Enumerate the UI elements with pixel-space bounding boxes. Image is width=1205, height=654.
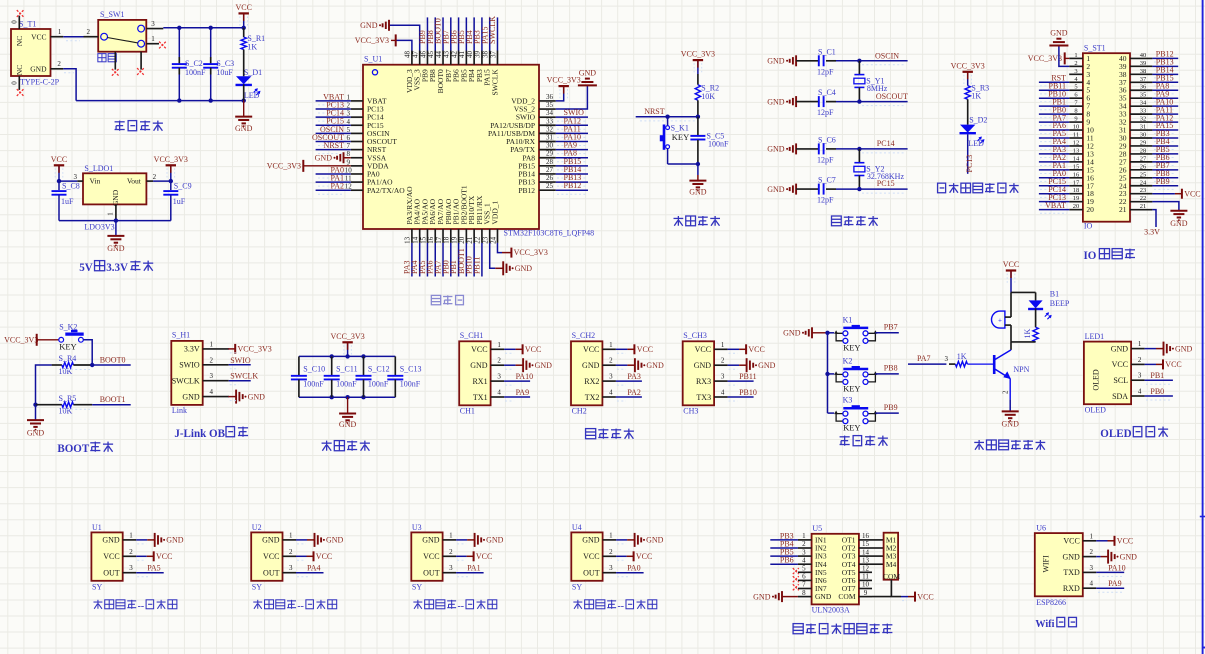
svg-text:GND: GND — [111, 189, 120, 206]
svg-text:SCL: SCL — [1113, 376, 1128, 385]
connector H1 J-Link — [171, 331, 202, 416]
node VCC top rail — [163, 26, 246, 30]
svg-text:GND: GND — [646, 361, 664, 370]
svg-text:GND: GND — [515, 264, 533, 273]
wire OSCOUT — [857, 92, 908, 106]
svg-text:1uF: 1uF — [61, 197, 74, 206]
svg-text:GND: GND — [248, 392, 266, 401]
svg-text:GND: GND — [1175, 344, 1193, 353]
svg-text:VCC_3V3: VCC_3V3 — [1028, 54, 1062, 63]
crystal Y2 32.768KHz — [854, 149, 905, 189]
svg-text:100nF: 100nF — [400, 380, 421, 389]
U1 pin 27 PB14 — [518, 165, 588, 179]
svg-text:GND: GND — [535, 361, 553, 370]
svg-text:GND: GND — [1111, 344, 1129, 353]
svg-text:10: 10 — [862, 581, 870, 589]
title 滤波电路 — [322, 441, 370, 451]
svg-text:S_U1: S_U1 — [364, 55, 382, 64]
U1 pin 24 VDD_1 — [489, 201, 502, 253]
svg-text:1: 1 — [1090, 532, 1094, 540]
svg-text:2: 2 — [209, 356, 213, 364]
svg-text:S_C12: S_C12 — [368, 365, 390, 374]
svg-text:Vin: Vin — [90, 176, 101, 185]
svg-text:GND: GND — [582, 536, 600, 545]
svg-text:B1: B1 — [1050, 289, 1059, 298]
ST1 pin 4 — [1039, 73, 1091, 86]
svg-text:1: 1 — [209, 340, 213, 348]
U1 pin 38 PA15 — [480, 17, 491, 85]
svg-text:2: 2 — [609, 357, 613, 365]
svg-text:VCC: VCC — [423, 552, 439, 561]
svg-text:LED1: LED1 — [1085, 332, 1105, 341]
svg-text:3: 3 — [209, 372, 213, 380]
svg-text:1: 1 — [721, 341, 725, 349]
resistor 1K base — [908, 352, 994, 367]
capacitor C7 12pF — [767, 176, 859, 205]
svg-text:ULN2003A: ULN2003A — [812, 606, 850, 615]
svg-text:S_CH1: S_CH1 — [460, 331, 484, 340]
svg-text:35: 35 — [1140, 92, 1147, 99]
U1 pin 19 PB1/AO — [449, 198, 461, 276]
svg-text:27: 27 — [1140, 155, 1147, 162]
svg-text:39: 39 — [1140, 60, 1147, 67]
U1 pin 8 VSSA — [315, 150, 387, 163]
svg-text:VCC_3V3: VCC_3V3 — [514, 248, 548, 257]
svg-text:SWCLK: SWCLK — [488, 16, 497, 44]
svg-text:28: 28 — [1140, 147, 1147, 154]
U5 pin 3 IN3 — [770, 548, 827, 561]
U3 pin 1 GND — [422, 531, 503, 547]
U1 pin 10 PA0 — [316, 165, 380, 178]
svg-text:21: 21 — [1140, 203, 1147, 210]
capacitor C4 12pF — [767, 88, 859, 117]
svg-text:3.3V: 3.3V — [1144, 228, 1160, 237]
svg-text:15: 15 — [862, 540, 870, 548]
svg-text:SWIO: SWIO — [230, 356, 251, 365]
U1 pin 32 PA11/USB/DM — [488, 124, 588, 138]
svg-text:GND: GND — [582, 361, 600, 370]
svg-text:S_C4: S_C4 — [818, 88, 836, 97]
svg-text:1K: 1K — [971, 92, 981, 101]
connector ST1 IO header body — [1083, 43, 1130, 230]
svg-text:PA10: PA10 — [516, 372, 534, 381]
svg-text:1: 1 — [802, 532, 806, 540]
wire BOOT0 — [62, 356, 131, 370]
svg-text:VCC: VCC — [583, 552, 599, 561]
capacitor C6 12pF — [767, 135, 859, 164]
svg-text:PB0: PB0 — [1150, 387, 1164, 396]
svg-text:GND: GND — [262, 536, 280, 545]
key K1 button PB7 — [828, 315, 899, 352]
U5 pin 12 OT5 — [842, 565, 872, 577]
ST1 pin 17 — [1039, 177, 1094, 190]
U3 pin 3 OUT — [423, 564, 483, 578]
svg-text:16: 16 — [1073, 171, 1080, 178]
svg-text:GND: GND — [102, 536, 120, 545]
svg-text:3: 3 — [802, 548, 806, 556]
svg-text:PA9: PA9 — [1108, 579, 1122, 588]
svg-text:100nF: 100nF — [336, 380, 357, 389]
svg-text:S_H1: S_H1 — [172, 331, 190, 340]
svg-text:VCC_3V3: VCC_3V3 — [154, 155, 188, 164]
svg-text:U2: U2 — [252, 523, 262, 532]
U1 pin 16 PA6/AO — [426, 198, 438, 276]
svg-text:33: 33 — [546, 117, 554, 125]
S_CH1 pin 2 GND — [470, 357, 552, 373]
ST1 pin 13 — [1039, 145, 1094, 158]
svg-text:S_C6: S_C6 — [818, 135, 836, 144]
svg-text:S_CH2: S_CH2 — [572, 331, 596, 340]
ground GND at U1 VSS_1 — [495, 261, 532, 275]
svg-text:2: 2 — [449, 548, 453, 556]
svg-text:GND: GND — [753, 592, 771, 601]
svg-text:2: 2 — [289, 548, 293, 556]
svg-text:14: 14 — [1073, 155, 1080, 162]
svg-text:3: 3 — [449, 564, 453, 572]
svg-text:RXD: RXD — [1063, 584, 1080, 593]
svg-text:U1: U1 — [92, 523, 102, 532]
wire PC14 — [857, 139, 907, 153]
module U4 sound sensor — [571, 523, 602, 592]
svg-text:2: 2 — [1090, 548, 1094, 556]
buzzer B1 BEEP — [992, 289, 1070, 342]
svg-text:SWCLK: SWCLK — [230, 372, 258, 381]
ST1 pin 1 — [1028, 52, 1091, 65]
svg-text:24: 24 — [489, 236, 497, 244]
svg-text:4: 4 — [609, 389, 613, 397]
svg-text:38: 38 — [1140, 68, 1147, 75]
svg-text:--: -- — [297, 601, 304, 612]
title J-Link OB接口 — [174, 427, 248, 440]
S_CH1 pin 1 VCC — [471, 341, 541, 355]
ST1 pin 2 — [1059, 46, 1091, 71]
ST1 pin 10 — [1039, 121, 1094, 134]
U1 pin 46 PB9 — [418, 17, 429, 82]
svg-text:32: 32 — [546, 125, 554, 133]
wire BOOT1 — [62, 395, 131, 409]
U1 pin 15 PA5/AO — [418, 198, 430, 276]
svg-text:GND: GND — [767, 57, 785, 66]
svg-text:--: -- — [458, 601, 465, 612]
key K2 button PB8 — [828, 356, 899, 393]
svg-text:PA7: PA7 — [917, 354, 931, 363]
title 声音检测--模拟量 U4 — [573, 600, 656, 612]
U1 pin 21 PB10/TX — [465, 195, 477, 276]
svg-text:VCC: VCC — [525, 345, 541, 354]
svg-text:VCC: VCC — [235, 3, 251, 12]
svg-text:K2: K2 — [843, 356, 853, 365]
svg-text:2: 2 — [153, 173, 157, 181]
svg-text:OUT: OUT — [423, 569, 440, 578]
svg-text:1K: 1K — [1023, 329, 1032, 339]
wire left bus BOOT — [33, 365, 51, 407]
U1 pin 1 VBAT — [316, 92, 387, 105]
svg-text:1: 1 — [449, 531, 453, 539]
svg-text:PA9: PA9 — [516, 388, 530, 397]
resistor 1K alarm vertical — [1023, 327, 1038, 342]
svg-text:3: 3 — [609, 564, 613, 572]
ST1 pin 34 — [1119, 97, 1178, 110]
svg-text:BOOT0: BOOT0 — [100, 356, 126, 365]
svg-text:GND: GND — [422, 536, 440, 545]
ST1 pin 37 — [1119, 73, 1178, 86]
U1 pin 4 PC15 — [316, 117, 384, 130]
svg-text:GND: GND — [1120, 552, 1138, 561]
svg-text:VBAT: VBAT — [1045, 201, 1066, 210]
ST1 pin 30 — [1119, 129, 1178, 142]
svg-text:PA0: PA0 — [627, 564, 641, 573]
SW1 bottom pins no-connect — [112, 52, 144, 76]
svg-text:17: 17 — [1073, 179, 1080, 186]
U1 pin 17 PA7/AO — [434, 198, 446, 276]
wire NRST — [636, 107, 700, 121]
U5 pin 8 GND — [753, 589, 832, 602]
svg-text:BEEP: BEEP — [1050, 299, 1070, 308]
svg-text:34: 34 — [546, 109, 554, 117]
svg-text:GND: GND — [767, 97, 785, 106]
svg-text:2: 2 — [802, 540, 806, 548]
svg-text:GND: GND — [767, 145, 785, 154]
svg-text:KEY: KEY — [59, 342, 76, 352]
LED1 pin 4 SDA — [1112, 387, 1173, 401]
svg-text:10K: 10K — [701, 92, 715, 101]
title Wifi模块 — [1035, 617, 1076, 630]
wire VCC node to Vin — [57, 179, 78, 183]
wire emitter down — [1002, 379, 1011, 400]
svg-text:VCC: VCC — [637, 345, 653, 354]
LDO1 pin 2 — [146, 173, 156, 181]
U1 pin 9 VDDA — [267, 158, 389, 172]
power VCC alarm — [1003, 260, 1019, 292]
capacitor C3 10uF — [203, 28, 234, 101]
svg-text:PC13: PC13 — [965, 155, 974, 173]
svg-text:3: 3 — [609, 373, 613, 381]
svg-text:6: 6 — [802, 573, 806, 581]
svg-text:VCC_3V3: VCC_3V3 — [238, 345, 272, 354]
svg-text:2: 2 — [497, 357, 501, 365]
svg-text:PA2: PA2 — [627, 388, 641, 397]
U1 pin 12 PA2/TX/AO — [316, 182, 406, 195]
U1 pin 44 BOOT0 — [434, 17, 445, 93]
SW1 pin 1 no-connect — [146, 35, 166, 48]
U1 pin 31 PA10/RX — [506, 133, 588, 147]
svg-text:VCC: VCC — [1184, 190, 1200, 199]
svg-text:SY: SY — [572, 583, 582, 592]
power VCC_3V3 reset — [681, 50, 715, 74]
ST1 pin 20 — [1039, 201, 1094, 214]
svg-text:1: 1 — [609, 531, 613, 539]
svg-text:4: 4 — [497, 389, 501, 397]
U4 pin 2 VCC — [583, 548, 652, 562]
S_CH2 pin 3 RX2 — [584, 372, 642, 386]
svg-text:PB8: PB8 — [884, 364, 898, 373]
key K3 button PB9 — [828, 396, 899, 433]
ST1 pin 38 — [1119, 66, 1178, 79]
ground GND at U1 VSS_2 — [578, 68, 597, 85]
U6 pin 3 TXD — [1063, 563, 1125, 577]
svg-text:NPN: NPN — [1013, 365, 1029, 374]
svg-text:GND: GND — [235, 124, 253, 133]
svg-text:VCC: VCC — [1112, 360, 1128, 369]
LED in alarm — [1028, 292, 1052, 327]
U1 pin 3 PC14 — [316, 109, 384, 122]
svg-text:OLED: OLED — [1085, 406, 1107, 415]
U4 pin 3 OUT — [583, 564, 643, 578]
U6 pin 2 GND — [1062, 548, 1137, 564]
svg-text:NRST: NRST — [324, 141, 345, 150]
T1 pin 1 VCC — [51, 28, 64, 37]
svg-text:3.3V: 3.3V — [106, 262, 128, 274]
sheet border right — [1202, 0, 1204, 654]
svg-text:BOOT: BOOT — [57, 443, 90, 455]
svg-text:GND: GND — [315, 154, 333, 163]
svg-text:SY: SY — [92, 583, 102, 592]
S_CH3 pin 2 GND — [694, 357, 776, 373]
svg-text:S_CH3: S_CH3 — [683, 331, 707, 340]
U5 pin 15 OT2 — [842, 540, 884, 552]
svg-text:VDD_1: VDD_1 — [490, 201, 499, 225]
U1 pin 11 PA1/AO — [316, 174, 394, 187]
svg-text:1: 1 — [151, 35, 155, 43]
svg-text:VCC: VCC — [263, 552, 279, 561]
svg-text:PA5: PA5 — [147, 564, 161, 573]
LED D1 — [236, 50, 263, 101]
svg-text:TX1: TX1 — [473, 393, 488, 402]
svg-text:9: 9 — [1074, 116, 1077, 123]
svg-text:TX2: TX2 — [585, 393, 600, 402]
svg-text:PA10: PA10 — [1108, 563, 1126, 572]
svg-text:S_R4: S_R4 — [59, 354, 77, 363]
title IO拓展口 — [1083, 249, 1135, 262]
svg-text:21: 21 — [1119, 205, 1127, 214]
wire filter bottom rail — [299, 395, 395, 399]
svg-text:GND: GND — [182, 392, 200, 401]
svg-text:PB9: PB9 — [884, 403, 898, 412]
svg-text:KEY: KEY — [672, 132, 689, 142]
capacitor C2 100nF — [172, 28, 206, 101]
svg-text:RX1: RX1 — [472, 377, 487, 386]
ST1 pin 22 — [1119, 195, 1179, 211]
ground GND reset — [689, 164, 707, 196]
ground GND buttons — [783, 327, 827, 338]
U6 pin 4 RXD — [1063, 579, 1124, 593]
U2 pin 2 VCC — [263, 548, 332, 562]
node bottom rail power — [76, 84, 246, 103]
U1 pin 14 PA4/AO — [410, 198, 422, 276]
S_CH2 pin 2 GND — [582, 357, 664, 373]
svg-text:VCC_3V3: VCC_3V3 — [355, 36, 389, 45]
ground GND LDO — [107, 221, 125, 253]
transistor Q1 NPN — [994, 350, 1029, 379]
U2 pin 3 OUT — [263, 564, 323, 578]
S_CH3 pin 3 RX3 — [696, 372, 757, 386]
U1 pin 26 PB13 — [518, 173, 588, 187]
U1 pin 45 PB8 — [426, 17, 437, 82]
svg-text:S_C10: S_C10 — [303, 365, 325, 374]
svg-text:12pF: 12pF — [817, 67, 834, 76]
svg-text:TXD: TXD — [1063, 568, 1080, 577]
svg-text:2: 2 — [1138, 356, 1142, 364]
title 声音检测--模拟量 U2 — [253, 600, 336, 612]
svg-text:4: 4 — [1090, 580, 1094, 588]
key K1 reset button — [660, 117, 689, 164]
svg-text:GND: GND — [783, 329, 801, 338]
title 主芯片 — [431, 295, 463, 304]
svg-text:12pF: 12pF — [817, 108, 834, 117]
svg-text:0: 0 — [11, 20, 19, 24]
svg-text:GND: GND — [646, 536, 664, 545]
svg-text:COM: COM — [838, 592, 855, 601]
svg-text:Link: Link — [172, 406, 187, 415]
svg-text:19: 19 — [1073, 195, 1080, 202]
wire Vout to VCC_3V3 node — [153, 179, 173, 183]
capacitor C10 100nF filter — [291, 356, 325, 397]
svg-text:3: 3 — [73, 173, 77, 181]
svg-text:S_R5: S_R5 — [59, 394, 77, 403]
svg-text:30: 30 — [1140, 132, 1147, 139]
svg-text:S_K2: S_K2 — [59, 323, 77, 332]
U1 pin 39 PB3 — [473, 17, 484, 82]
ST1 pin 9 — [1039, 113, 1091, 126]
svg-text:VCC_3V3: VCC_3V3 — [547, 76, 581, 85]
svg-text:VCC: VCC — [103, 552, 119, 561]
S_CH3 pin 1 VCC — [695, 341, 765, 355]
svg-text:2: 2 — [129, 548, 133, 556]
capacitor C12 100nF filter — [356, 356, 390, 397]
U1 pin 28 PB15 — [518, 157, 588, 171]
LED D2 — [960, 99, 988, 148]
svg-text:0: 0 — [11, 81, 19, 85]
resistor R2 10K — [695, 74, 719, 117]
svg-text:2: 2 — [721, 357, 725, 365]
U1 pin 5 OSCIN — [316, 125, 390, 138]
svg-text:GND: GND — [689, 187, 707, 196]
svg-text:GND: GND — [470, 361, 488, 370]
svg-text:OLED: OLED — [1091, 369, 1100, 391]
svg-text:PA2: PA2 — [331, 182, 345, 191]
U5 pin 5 IN5 — [793, 565, 827, 577]
U3 pin 2 VCC — [423, 548, 492, 562]
svg-text:4: 4 — [721, 389, 725, 397]
U1 pin 7 NRST — [316, 141, 387, 154]
wire COM to VCC — [891, 580, 933, 602]
svg-text:3.3V: 3.3V — [184, 345, 200, 354]
svg-text:IO: IO — [1083, 250, 1096, 262]
svg-text:PB9: PB9 — [1156, 177, 1170, 186]
T1 pin 0 bottom no-connect — [11, 76, 24, 96]
U1 pin 34 SWIO — [516, 108, 588, 122]
svg-text:32: 32 — [1140, 116, 1147, 123]
U1 pin 43 PB7 — [442, 17, 453, 82]
svg-text:20: 20 — [1073, 203, 1080, 210]
ST1 pin 31 — [1119, 121, 1178, 134]
svg-text:VCC: VCC — [917, 592, 933, 601]
svg-text:TX3: TX3 — [696, 393, 711, 402]
svg-text:SWIO: SWIO — [179, 361, 200, 370]
svg-text:GND: GND — [1050, 29, 1068, 38]
svg-text:100nF: 100nF — [708, 140, 729, 149]
wire T1 VCC to switch — [63, 37, 83, 41]
capacitor C11 100nF filter — [324, 356, 358, 397]
svg-text:7: 7 — [802, 581, 806, 589]
svg-text:PB10: PB10 — [739, 388, 757, 397]
svg-text:30: 30 — [546, 142, 554, 150]
ST1 pin 27 — [1119, 153, 1178, 166]
module U1 sound sensor — [91, 523, 122, 592]
svg-text:20: 20 — [1086, 205, 1094, 214]
S_CH2 pin 1 VCC — [583, 341, 653, 355]
svg-text:31: 31 — [1140, 124, 1147, 131]
